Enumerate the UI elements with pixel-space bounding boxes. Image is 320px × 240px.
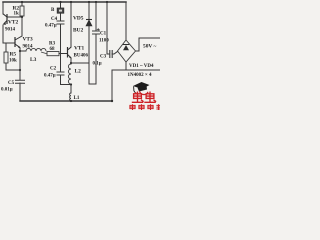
junction bottom rail bridge return — [111, 100, 113, 102]
svg-text:L2: L2 — [75, 69, 82, 75]
wire VT3 collector riser — [21, 17, 23, 36]
junction VD5 top rail — [88, 1, 90, 3]
wire bridge bottom return — [112, 62, 160, 101]
wire bottom rail — [20, 100, 112, 102]
wire L3 feed — [20, 50, 26, 52]
svg-text:0.1μ: 0.1μ — [93, 62, 102, 67]
svg-text:10k: 10k — [9, 59, 17, 64]
svg-text:1k: 1k — [14, 12, 20, 17]
wire left rail — [2, 2, 4, 14]
wire R2 stubs — [21, 2, 23, 17]
svg-text:R3: R3 — [49, 42, 56, 47]
wire VT1 collector riser — [70, 2, 72, 47]
transistor VT2 — [3, 14, 7, 24]
junction R5 bottom — [19, 69, 21, 71]
wire L2 bottom stub — [70, 84, 72, 93]
wire R3 to VT1 base — [59, 53, 68, 55]
logo text chong chong big — [132, 92, 156, 103]
fuse B — [57, 8, 64, 13]
wire VT2 emitter run — [3, 25, 15, 43]
svg-text:0.47μ: 0.47μ — [44, 74, 56, 79]
wire node B link emitter to VD5 — [71, 62, 89, 64]
inductor L2 — [68, 64, 71, 84]
svg-text:1N4002 × 4: 1N4002 × 4 — [128, 73, 152, 78]
diode VD5 — [86, 20, 92, 26]
svg-text:C4: C4 — [51, 17, 58, 22]
svg-text:0.47μ: 0.47μ — [45, 24, 57, 29]
svg-text:C5: C5 — [8, 81, 15, 86]
junction C2 tap L2 L1 — [70, 83, 72, 85]
wire C1 column — [95, 2, 97, 84]
resistor R3 — [41, 52, 59, 56]
bridge rectifier VD1-VD4 — [118, 40, 136, 62]
svg-text:BU2: BU2 — [73, 28, 83, 34]
junction VT1 collector top rail — [70, 1, 72, 3]
svg-text:VT2: VT2 — [8, 20, 18, 26]
junction R2 top rail — [21, 1, 23, 3]
svg-text:VT3: VT3 — [23, 37, 33, 43]
wire C3 to bridge — [112, 52, 118, 55]
wire AC input 50V — [136, 38, 160, 51]
capacitor C1 — [92, 31, 100, 34]
svg-text:1100: 1100 — [99, 39, 109, 44]
wire fuse C4 column — [60, 2, 62, 54]
transistor VT1 — [68, 47, 72, 58]
svg-text:B: B — [51, 8, 55, 13]
wire top rail — [3, 1, 126, 3]
wire C5 stem — [19, 83, 21, 101]
junction L1 bottom rail — [70, 100, 72, 102]
svg-text:VT1: VT1 — [74, 46, 84, 52]
svg-text:VD1 ~ VD4: VD1 ~ VD4 — [129, 64, 154, 69]
svg-text:C2: C2 — [50, 67, 57, 72]
junction C1 top rail — [95, 1, 97, 3]
resistor R5 — [4, 52, 8, 63]
svg-text:L1: L1 — [74, 96, 80, 101]
svg-text:VD5: VD5 — [73, 16, 84, 22]
capacitor C3 — [110, 50, 112, 58]
junction fuse top rail — [59, 1, 61, 3]
svg-text:C1: C1 — [100, 32, 107, 37]
wire VD5 to C1 jog — [89, 63, 96, 84]
inductor L1 — [70, 93, 71, 101]
svg-text:50V ~: 50V ~ — [143, 44, 157, 50]
logo graduation cap — [133, 82, 150, 95]
resistor R2 — [20, 6, 24, 16]
svg-text:0.01μ: 0.01μ — [1, 88, 13, 93]
svg-text:9014: 9014 — [5, 28, 16, 33]
wire VT2 base to node A — [7, 16, 22, 18]
wire R5 top stub — [5, 43, 7, 52]
junction L3 VT3 emitter — [19, 50, 21, 52]
wire VT1 emitter drop — [70, 58, 72, 64]
capacitor C4 — [57, 21, 65, 24]
wire VD5 column — [88, 2, 90, 63]
diode inside bridge — [123, 44, 129, 46]
wire C3 column — [107, 2, 110, 54]
capacitor C5 — [15, 80, 25, 83]
svg-text:L3: L3 — [30, 57, 37, 63]
transistor VT3 — [15, 36, 22, 48]
junction C3 top rail — [106, 1, 108, 3]
wire VT3 emitter column — [19, 48, 21, 80]
capacitor C2 — [57, 72, 65, 75]
node B VT1 emitter VD5 — [70, 62, 72, 64]
logo text bottom row — [130, 104, 160, 110]
wire R5 bottom link — [6, 63, 20, 70]
wire bridge top riser — [125, 2, 127, 40]
wire C2 column — [61, 54, 72, 85]
svg-text:BU406: BU406 — [74, 54, 89, 59]
svg-text:68: 68 — [50, 47, 56, 52]
inductor L3 — [26, 48, 46, 51]
svg-text:C3: C3 — [100, 55, 107, 60]
node A R2 VT2 base VT3 collector — [21, 16, 23, 18]
svg-text:R5: R5 — [10, 52, 17, 58]
